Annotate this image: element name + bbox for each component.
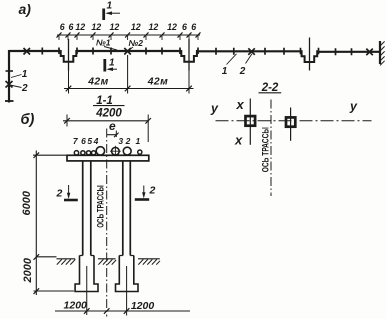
X support mark (mid) — [124, 48, 131, 55]
pipe 2 (large) — [123, 147, 131, 155]
left column section (2-2) — [246, 116, 256, 126]
svg-text:12: 12 — [167, 22, 177, 32]
route axis (plan 2-2) — [270, 100, 272, 197]
pipeline segment B — [77, 50, 181, 52]
6000/2000 vertical dimension — [21, 151, 74, 296]
svg-text:6: 6 — [182, 22, 187, 32]
dimension chain line (6 6 12... ) — [57, 34, 200, 36]
svg-text:3: 3 — [118, 136, 123, 146]
svg-text:12: 12 — [110, 22, 120, 32]
svg-text:1: 1 — [222, 66, 228, 77]
svg-text:2: 2 — [21, 83, 28, 94]
pipe 1 (small) — [138, 150, 142, 154]
svg-text:4: 4 — [93, 136, 99, 146]
svg-text:у: у — [210, 102, 219, 116]
pipes on traverse: small pipes 7,6,5 — [74, 151, 95, 155]
svg-text:42м: 42м — [147, 77, 169, 88]
anchor support 3 — [301, 38, 319, 71]
svg-text:1: 1 — [109, 58, 115, 69]
svg-text:1: 1 — [107, 1, 113, 12]
section cut mark 1 (top) — [104, 1, 120, 21]
ground line segments — [57, 258, 160, 260]
right footing — [116, 256, 139, 292]
svg-text:1: 1 — [22, 69, 28, 80]
title 1-1 — [93, 95, 125, 120]
svg-text:б): б) — [21, 112, 35, 128]
ground hatching — [57, 259, 160, 264]
route axis (section 1-1) dash-dot — [106, 129, 108, 317]
left footing — [75, 256, 98, 292]
section cut mark 1 (bottom) — [105, 58, 117, 72]
svg-text:№1: №1 — [96, 38, 111, 48]
svg-text:1: 1 — [136, 136, 141, 146]
svg-text:2000: 2000 — [22, 257, 34, 283]
svg-text:6: 6 — [81, 136, 86, 146]
svg-text:1200: 1200 — [64, 300, 88, 312]
x axis line through left column — [249, 99, 251, 145]
X support mark — [24, 48, 31, 55]
svg-text:а): а) — [19, 1, 32, 17]
traverse beam — [67, 155, 149, 161]
svg-text:у: у — [349, 100, 358, 114]
X mark at wall — [366, 49, 373, 56]
svg-text:ОСЬ ТРАССЫ: ОСЬ ТРАССЫ — [260, 127, 270, 172]
svg-text:4200: 4200 — [95, 108, 122, 120]
svg-text:12: 12 — [131, 22, 141, 32]
support ticks segment B — [93, 48, 162, 55]
svg-text:6000: 6000 — [21, 190, 33, 215]
title 2-2 — [259, 82, 282, 94]
pipeline segment D — [317, 51, 380, 53]
svg-text:12: 12 — [91, 22, 101, 32]
support tick on left vertical — [6, 70, 14, 72]
support ticks segment C — [216, 48, 284, 55]
pipeline segment A — [9, 50, 61, 52]
leader label 2 (left) — [10, 85, 22, 88]
pipe 3 (large with crosshair) — [110, 146, 121, 157]
bottom 1200 dimension — [55, 266, 190, 316]
dimension ticks — [57, 32, 201, 37]
leader label 1 (left) — [11, 75, 22, 78]
pipeline segment C — [198, 50, 302, 52]
pipe 4 (large) — [96, 147, 104, 155]
anchor support 1 — [59, 39, 77, 71]
anchor X on left vertical — [6, 81, 13, 88]
svg-text:12: 12 — [75, 22, 85, 32]
leader label 2 (mid) — [246, 54, 253, 64]
support tick — [41, 48, 43, 55]
svg-text:е: е — [109, 119, 116, 133]
42m dimension extension lines — [69, 55, 190, 94]
svg-text:2-2: 2-2 — [261, 82, 279, 94]
svg-text:2: 2 — [56, 188, 63, 200]
dimension tick extension stubs — [59, 35, 198, 40]
42m dimension line — [64, 88, 194, 90]
support ticks segment D — [336, 48, 352, 55]
pipeline main line: left vertical drop — [8, 50, 10, 103]
leader label 1 (mid) — [227, 54, 237, 65]
42m dimension ticks — [66, 86, 192, 92]
svg-text:№2: №2 — [129, 38, 144, 48]
dimension values 6 6 12 12 12 12 12 12 6 6 — [60, 22, 197, 32]
svg-text:x: x — [236, 97, 245, 112]
svg-text:1200: 1200 — [131, 300, 155, 312]
left vertical end bar — [5, 100, 14, 102]
fixed wall (right end) — [380, 41, 385, 65]
svg-text:42м: 42м — [87, 77, 109, 88]
right column section (2-2) — [286, 108, 295, 141]
section cut mark 2 (left) — [56, 185, 78, 200]
svg-text:5: 5 — [87, 136, 92, 146]
svg-text:6: 6 — [191, 22, 196, 32]
svg-text:ОСЬ ТРАССЫ: ОСЬ ТРАССЫ — [95, 185, 106, 228]
svg-text:x: x — [234, 133, 243, 148]
pipe number labels 7 6 5 4 3 2 1 — [73, 136, 141, 146]
svg-text:12: 12 — [149, 22, 159, 32]
svg-text:2: 2 — [125, 136, 131, 146]
columns (section 1-1) — [83, 161, 131, 256]
svg-text:2: 2 — [149, 185, 156, 197]
X support mark segment C — [248, 48, 255, 55]
svg-text:6: 6 — [69, 22, 74, 32]
svg-text:2: 2 — [239, 66, 246, 77]
svg-text:6: 6 — [60, 22, 65, 32]
dimension e line — [107, 134, 116, 136]
4200 dimension line over traverse — [63, 115, 151, 143]
y axis line (plan 2-2) — [216, 120, 372, 122]
section cut mark 2 (right) — [135, 185, 156, 200]
anchor support 2 — [180, 39, 198, 71]
